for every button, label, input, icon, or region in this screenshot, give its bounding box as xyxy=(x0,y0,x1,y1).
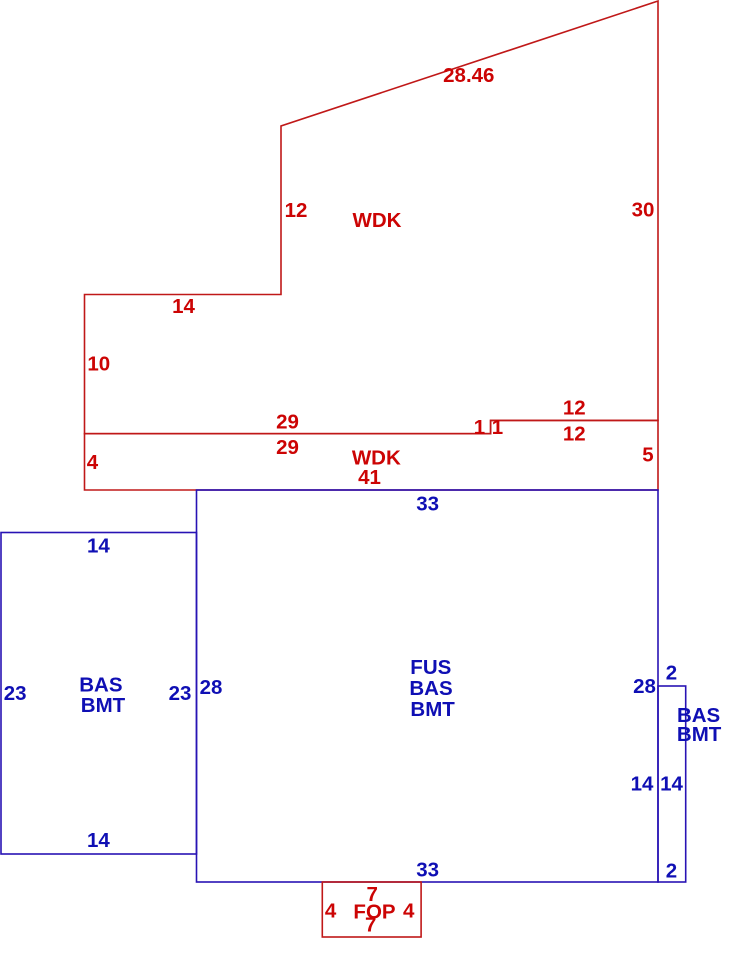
svg-text:BMT: BMT xyxy=(410,698,455,721)
svg-text:23: 23 xyxy=(169,682,192,705)
svg-text:29: 29 xyxy=(276,436,299,459)
svg-text:2: 2 xyxy=(666,859,677,882)
svg-text:30: 30 xyxy=(632,199,655,222)
svg-text:4: 4 xyxy=(325,899,337,922)
svg-text:14: 14 xyxy=(87,829,110,852)
svg-text:1: 1 xyxy=(474,416,485,439)
svg-text:14: 14 xyxy=(631,773,654,796)
svg-text:BMT: BMT xyxy=(677,723,722,746)
svg-text:33: 33 xyxy=(416,492,439,515)
svg-text:2: 2 xyxy=(666,662,677,685)
svg-text:33: 33 xyxy=(416,859,439,882)
svg-text:14: 14 xyxy=(172,295,195,318)
svg-text:4: 4 xyxy=(87,451,99,474)
svg-text:WDK: WDK xyxy=(353,209,402,232)
svg-text:12: 12 xyxy=(285,199,308,222)
svg-text:12: 12 xyxy=(563,396,586,419)
svg-text:29: 29 xyxy=(276,410,299,433)
svg-text:1: 1 xyxy=(492,416,503,439)
svg-text:FUS: FUS xyxy=(410,656,451,679)
svg-text:28.46: 28.46 xyxy=(443,64,494,87)
svg-text:7: 7 xyxy=(365,914,376,937)
svg-text:12: 12 xyxy=(563,422,586,445)
svg-text:14: 14 xyxy=(87,535,110,558)
svg-text:28: 28 xyxy=(633,675,656,698)
svg-text:BAS: BAS xyxy=(409,677,452,700)
svg-text:10: 10 xyxy=(87,353,110,376)
svg-text:BMT: BMT xyxy=(81,694,126,717)
svg-text:28: 28 xyxy=(200,676,223,699)
svg-text:5: 5 xyxy=(642,444,653,467)
svg-text:23: 23 xyxy=(4,682,27,705)
svg-text:41: 41 xyxy=(358,466,381,489)
svg-text:14: 14 xyxy=(660,773,683,796)
svg-text:4: 4 xyxy=(403,899,415,922)
